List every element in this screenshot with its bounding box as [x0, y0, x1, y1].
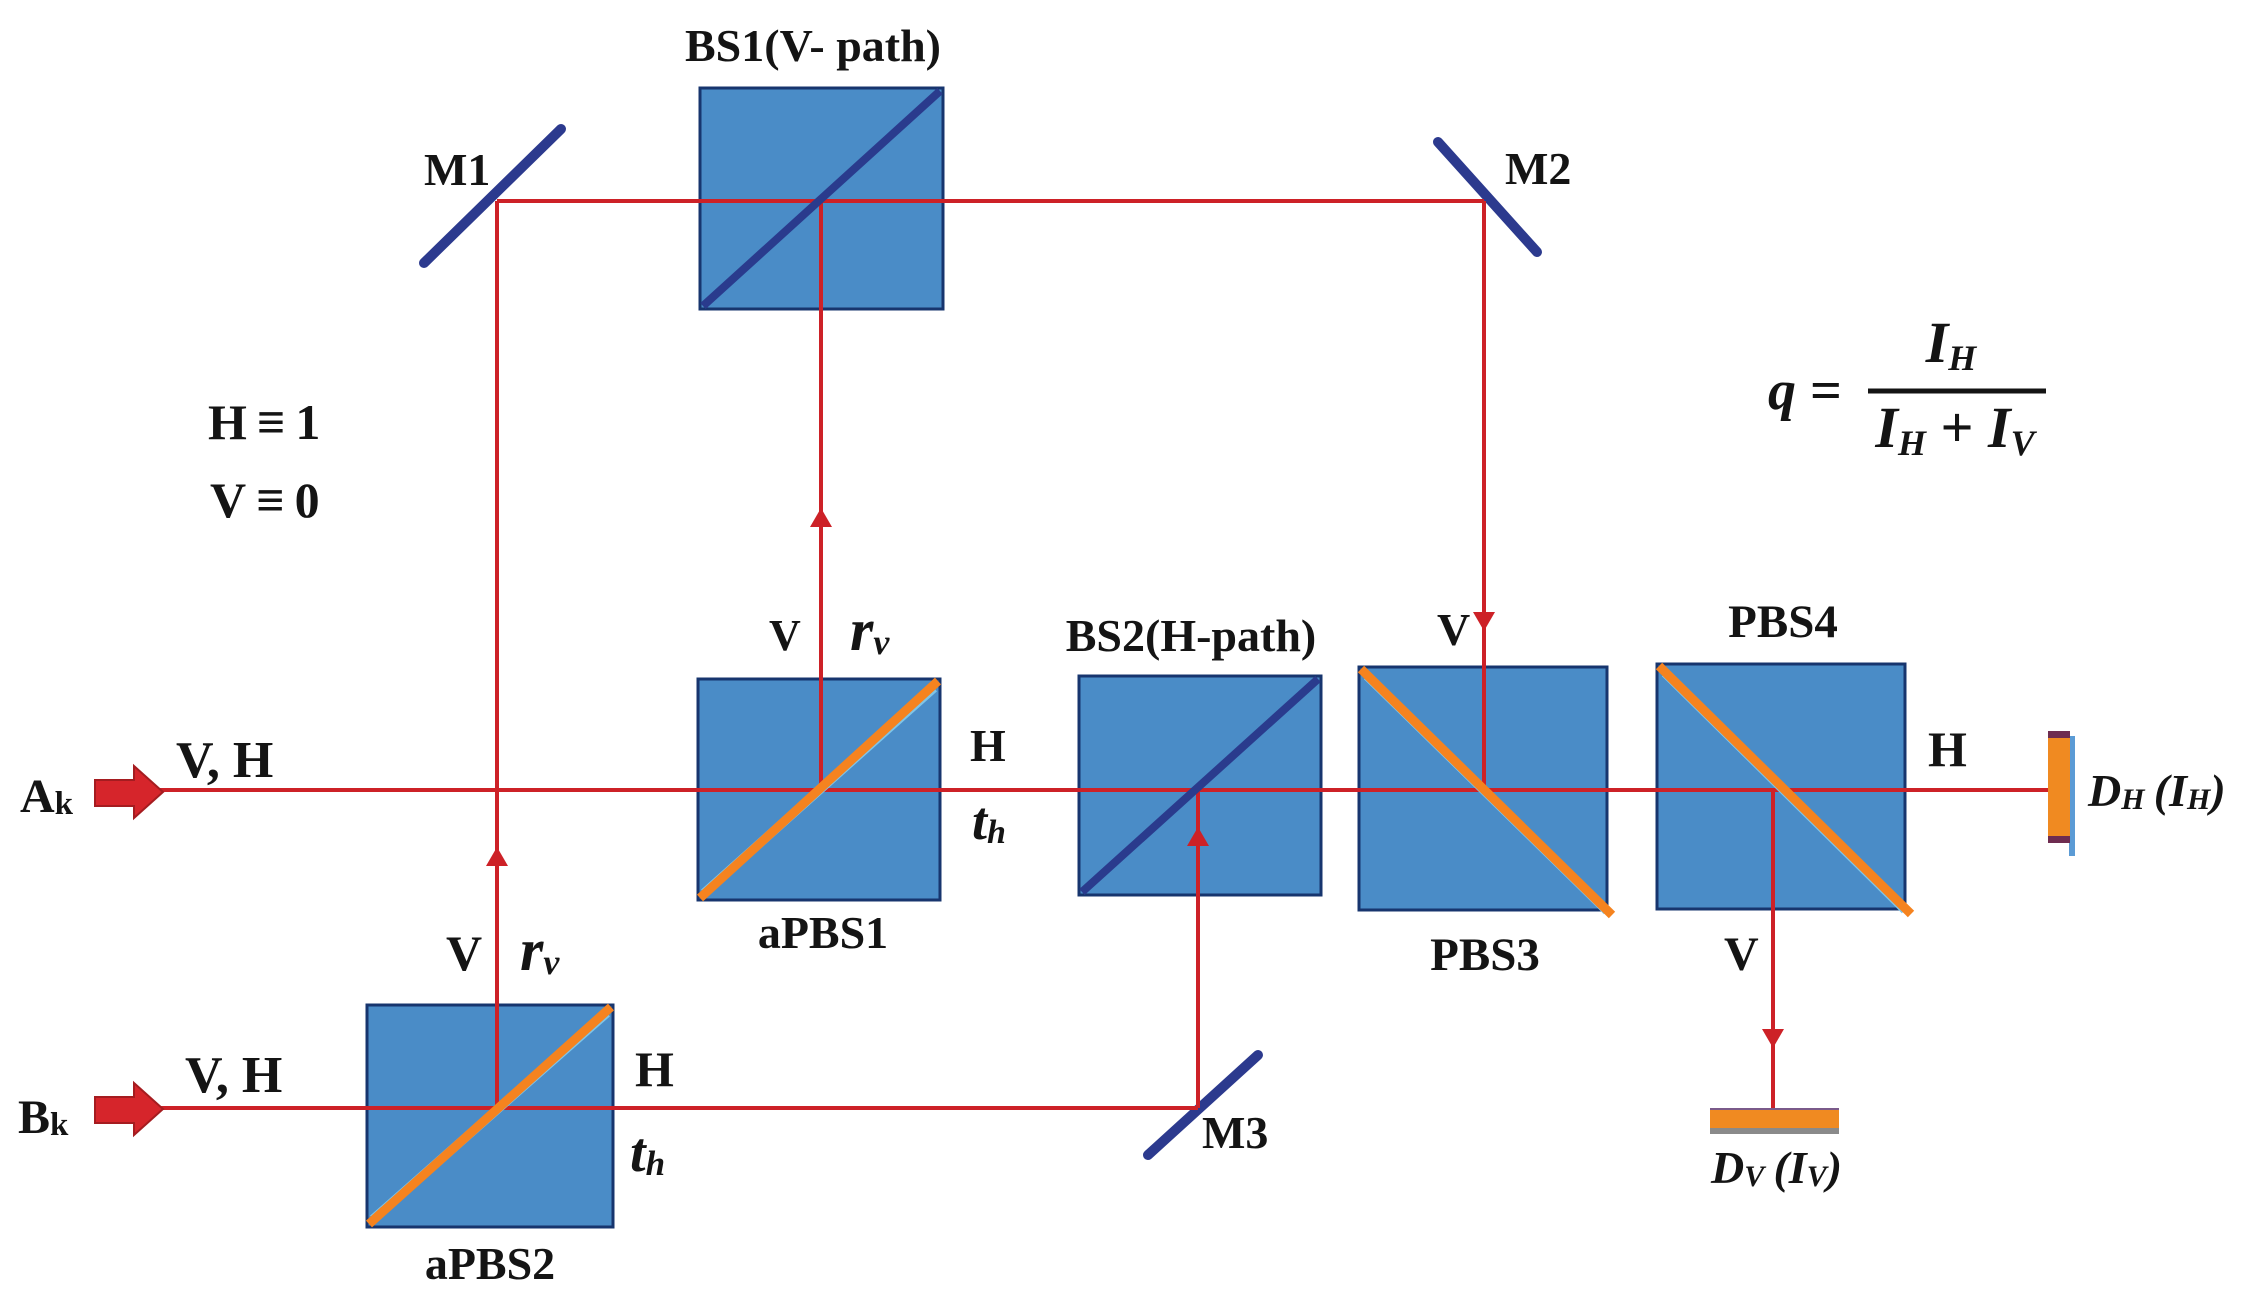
wire: beam B horizontal Bk to M3 [160, 1106, 1198, 1110]
label rv above aPBS1 [850, 597, 890, 663]
svg-text:q =: q = [1768, 360, 1842, 422]
label V below PBS4 [1724, 928, 1759, 981]
input block arrow Ak [95, 766, 163, 818]
beam splitter aPBS1 diagonal [700, 681, 938, 898]
svg-text:M3: M3 [1202, 1107, 1268, 1158]
label V=0 [210, 472, 320, 528]
arrowhead up on left vertical beam [486, 847, 508, 866]
label BS1 [685, 20, 941, 71]
beam splitter BS2 body [1079, 676, 1321, 895]
beam splitter BS1 body [700, 88, 943, 309]
label DV(IV) [1710, 1142, 1842, 1193]
label H right of aPBS1 [970, 720, 1006, 771]
svg-text:V ≡ 0: V ≡ 0 [210, 472, 320, 528]
svg-text:V: V [769, 611, 801, 660]
svg-text:V: V [446, 925, 482, 981]
label V above PBS3 [1437, 604, 1470, 655]
svg-text:H ≡ 1: H ≡ 1 [208, 394, 320, 450]
wire: vertical beam M3 to BS2 [1196, 790, 1200, 1108]
mirror M2 [1438, 142, 1537, 252]
label V above aPBS2 [446, 925, 482, 981]
label H right of aPBS2 [635, 1041, 674, 1097]
beam splitter aPBS2 body [367, 1005, 613, 1227]
label M1 [424, 144, 490, 195]
label Bk [18, 1091, 69, 1144]
input block arrow Bk [95, 1083, 163, 1135]
svg-text:M1: M1 [424, 144, 490, 195]
label BS2 [1066, 610, 1316, 661]
svg-text:aPBS1: aPBS1 [758, 907, 888, 958]
wire: vertical beam M2 to PBS3 [1482, 201, 1486, 790]
label DH(IH) [2087, 765, 2226, 816]
beam splitter PBS3 diagonal [1361, 669, 1612, 915]
label PBS3 [1430, 929, 1540, 981]
arrowhead up on aPBS1-BS1 beam [810, 508, 832, 527]
arrowhead down on PBS4-DV beam [1762, 1029, 1784, 1048]
beam splitter PBS4 diagonal [1659, 666, 1911, 914]
mirror M1 [424, 129, 561, 263]
svg-text:PBS4: PBS4 [1728, 596, 1838, 648]
label th right of aPBS2 [630, 1122, 665, 1184]
detector DH [2048, 731, 2075, 856]
svg-text:H: H [970, 720, 1006, 771]
formula q = IH/(IH+IV) [1768, 310, 2046, 463]
svg-text:V: V [1724, 928, 1759, 981]
wire: left vertical beam M1 to aPBS2 [495, 201, 499, 1108]
label aPBS1 [758, 907, 888, 958]
label V,H beam B [185, 1047, 282, 1104]
beam splitter aPBS2 diagonal [369, 1007, 611, 1224]
mirror M3 [1148, 1055, 1258, 1155]
svg-text:V: V [1437, 604, 1470, 655]
svg-text:BS2(H-path): BS2(H-path) [1066, 610, 1316, 661]
arrowhead up on M3-BS2 beam [1187, 827, 1209, 846]
label V above aPBS1 [769, 611, 801, 660]
svg-text:H: H [1928, 721, 1967, 777]
svg-text:aPBS2: aPBS2 [425, 1238, 555, 1289]
wire: vertical beam aPBS1 to BS1 [819, 201, 823, 790]
svg-text:H: H [635, 1041, 674, 1097]
beam splitter PBS4 body [1657, 664, 1905, 909]
beam splitter PBS3 body [1359, 667, 1607, 910]
wire: top beam M1 to M2 [497, 199, 1484, 203]
svg-text:PBS3: PBS3 [1430, 929, 1540, 981]
arrowhead down on M2-PBS3 beam [1473, 612, 1495, 631]
label M2 [1505, 143, 1571, 194]
label M3 [1202, 1107, 1268, 1158]
label H right of PBS4 [1928, 721, 1967, 777]
label V,H beam A [176, 732, 273, 789]
svg-text:V, H: V, H [185, 1047, 282, 1104]
beam splitter BS1 diagonal [703, 91, 940, 306]
label rv above aPBS2 [520, 917, 560, 983]
label H=1 [208, 394, 320, 450]
svg-text:M2: M2 [1505, 143, 1571, 194]
wire: beam A horizontal Ak to DH [160, 788, 2049, 792]
detector DV [1710, 1108, 1839, 1134]
label Ak [20, 770, 74, 823]
svg-text:V, H: V, H [176, 732, 273, 789]
label aPBS2 [425, 1238, 555, 1289]
svg-text:BS1(V- path): BS1(V- path) [685, 20, 941, 71]
beam splitter BS2 diagonal [1082, 679, 1318, 892]
label PBS4 [1728, 596, 1838, 648]
wire: vertical beam PBS4 to DV [1771, 790, 1775, 1110]
beam splitter aPBS1 body [698, 679, 940, 900]
label th right of aPBS1 [972, 791, 1006, 851]
